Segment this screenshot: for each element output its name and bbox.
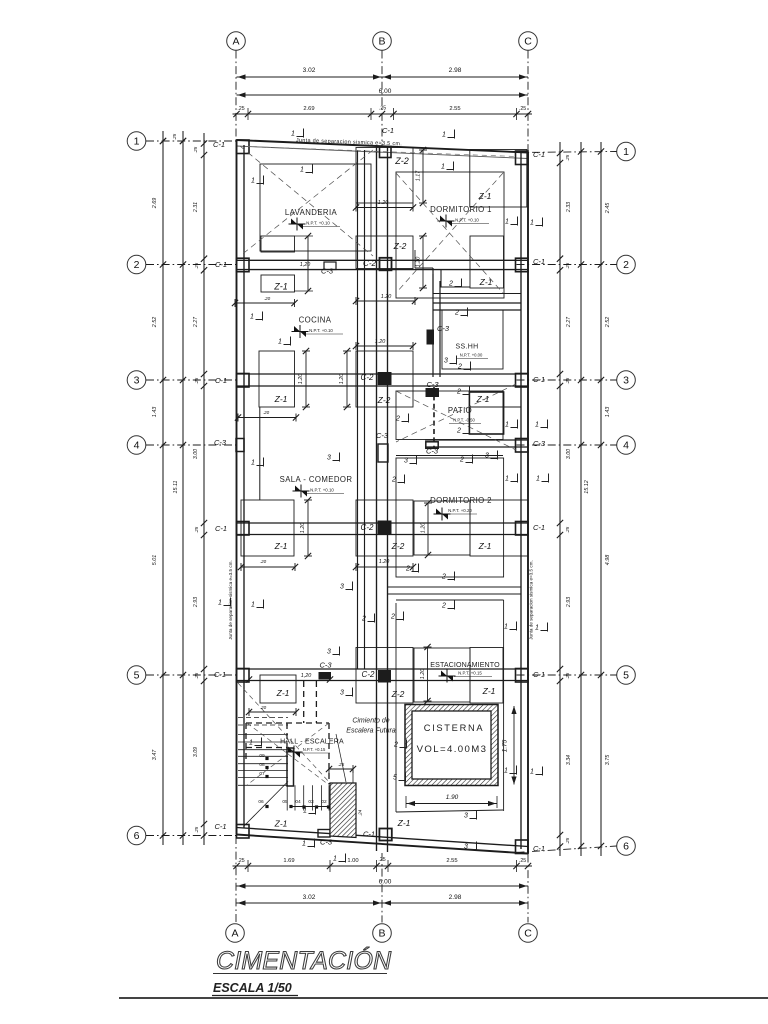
svg-text:3.02: 3.02 xyxy=(303,67,316,74)
svg-text:1: 1 xyxy=(278,339,282,346)
svg-text:N.P.T. +0.10: N.P.T. +0.10 xyxy=(310,488,334,493)
svg-text:3: 3 xyxy=(340,690,344,697)
svg-text:C-1: C-1 xyxy=(533,670,545,679)
svg-text:Z-1: Z-1 xyxy=(274,394,288,404)
zapata Z-1 left row45 xyxy=(241,500,294,556)
svg-text:04: 04 xyxy=(295,799,301,805)
grid circle A bottom xyxy=(226,924,245,943)
column C-2 B r5 filled xyxy=(379,671,391,683)
svg-text:DORMITORIO 2: DORMITORIO 2 xyxy=(430,496,492,505)
zapata Z-1 left row5 xyxy=(260,675,296,703)
stair riser line 2 xyxy=(294,785,296,810)
left chain middle ticks xyxy=(180,261,186,267)
column C-1 B r1 xyxy=(380,147,392,158)
svg-text:.25: .25 xyxy=(194,262,199,269)
svg-text:2.31: 2.31 xyxy=(193,202,199,213)
svg-text:3: 3 xyxy=(134,375,140,387)
column C-3 patio bottom xyxy=(426,442,438,449)
svg-text:Z-1: Z-1 xyxy=(274,541,288,551)
left wall inner line xyxy=(243,145,245,828)
bottom boundary line upper xyxy=(237,828,529,847)
svg-text:N.P.T. +0.10: N.P.T. +0.10 xyxy=(309,328,333,333)
lavanderia diagonal 1 xyxy=(240,146,373,256)
top junta diagonal hint xyxy=(248,147,516,157)
svg-text:1: 1 xyxy=(249,740,253,747)
svg-text:2: 2 xyxy=(361,616,366,623)
svg-text:2.98: 2.98 xyxy=(449,894,462,901)
column C-3 B r4 xyxy=(378,444,388,462)
svg-text:1: 1 xyxy=(505,476,509,483)
svg-text:DORMITORIO 1: DORMITORIO 1 xyxy=(430,205,492,214)
right chain middle ticks xyxy=(578,261,584,267)
stair tread line 3 xyxy=(238,749,288,751)
row 4.5 wall lower line xyxy=(237,534,529,536)
secondary wall left of B inner xyxy=(364,150,366,669)
grid circle 1 right xyxy=(617,142,636,161)
svg-text:C-2: C-2 xyxy=(363,259,376,268)
svg-text:1.20: 1.20 xyxy=(420,669,426,680)
svg-text:C-1: C-1 xyxy=(533,257,545,266)
svg-text:Cimiento de: Cimiento de xyxy=(352,718,389,725)
svg-text:Z-2: Z-2 xyxy=(393,241,407,251)
svg-text:.25: .25 xyxy=(172,133,177,140)
wall step right of B row2 xyxy=(414,250,416,268)
dormitorio2 closet rect xyxy=(414,501,470,555)
svg-text:1.00: 1.00 xyxy=(347,858,358,864)
dim h 1.20 B row45 xyxy=(356,566,413,568)
cisterna dim 1.75 xyxy=(513,706,515,785)
column C-1 r1 left wall xyxy=(237,140,250,154)
garage left wall line xyxy=(395,603,397,812)
svg-text:2.98: 2.98 xyxy=(449,67,462,74)
svg-text:Z-1: Z-1 xyxy=(397,818,411,828)
grid circle 6 right xyxy=(617,837,636,856)
zapata Z-2 B row2 xyxy=(356,236,413,269)
dim h 1.20 B row3 xyxy=(356,345,413,347)
svg-text:6.00: 6.00 xyxy=(379,879,392,886)
secondary wall left of B outer xyxy=(357,150,359,669)
svg-text:C-1: C-1 xyxy=(363,830,375,839)
svg-text:.25: .25 xyxy=(565,837,570,844)
svg-text:.25: .25 xyxy=(194,377,199,384)
svg-text:3.00: 3.00 xyxy=(566,449,572,459)
left chain middle ticks xyxy=(180,442,186,448)
stair dot xyxy=(302,805,305,808)
svg-text:Z-2: Z-2 xyxy=(377,395,391,405)
bottom boundary line outer xyxy=(237,835,529,854)
stair riser line 3 xyxy=(303,785,305,810)
svg-text:.24: .24 xyxy=(358,809,363,816)
svg-text:SALA - COMEDOR: SALA - COMEDOR xyxy=(280,475,353,484)
svg-text:5: 5 xyxy=(623,670,629,682)
svg-text:3.09: 3.09 xyxy=(193,747,199,757)
svg-text:Z-1: Z-1 xyxy=(273,282,288,292)
right wall outer line xyxy=(527,153,529,854)
room lavanderia outline xyxy=(260,164,371,251)
svg-text:3.75: 3.75 xyxy=(605,754,611,765)
stair tread line 5 xyxy=(238,763,288,765)
axis 1 leader left dash-dot xyxy=(146,140,237,142)
dim v 1.20 lavanderia row2 xyxy=(307,236,309,291)
svg-text:N.P.T. +0.15: N.P.T. +0.15 xyxy=(303,747,326,752)
left chain middle ticks xyxy=(180,377,186,383)
svg-text:4: 4 xyxy=(623,440,629,452)
dim v 1.20 left row3 b xyxy=(346,351,348,407)
svg-text:2: 2 xyxy=(623,259,629,271)
zapata Z-1 right row45 xyxy=(470,500,528,556)
stair dot xyxy=(315,805,318,808)
garage top wall upper xyxy=(388,586,521,588)
axis 1 leader right dash-dot xyxy=(517,152,617,153)
svg-text:3: 3 xyxy=(623,375,629,387)
stair dot xyxy=(289,805,292,808)
svg-text:C-1: C-1 xyxy=(213,140,225,149)
svg-text:3: 3 xyxy=(404,458,408,465)
svg-text:2.69: 2.69 xyxy=(152,198,158,210)
zapata Z-2 B row3 xyxy=(356,351,413,407)
svg-text:2.52: 2.52 xyxy=(605,317,611,329)
bottom dimension chain .25 1.69 1.00 .25 2.55 .25 xyxy=(233,865,533,867)
column C-1 stair r6 xyxy=(318,830,330,838)
svg-text:C-3: C-3 xyxy=(426,447,439,456)
zapata Z-1 left row3 xyxy=(259,351,295,407)
stair dashed mid horizontal xyxy=(246,747,287,749)
svg-text:LAVANDERIA: LAVANDERIA xyxy=(285,208,338,217)
svg-text:C-1: C-1 xyxy=(533,523,545,532)
svg-text:3: 3 xyxy=(464,844,468,851)
dim h 1.20 under Z2 top xyxy=(356,207,413,209)
right chain ticks at row xyxy=(598,442,604,448)
svg-text:6.00: 6.00 xyxy=(379,88,392,95)
svg-text:1.43: 1.43 xyxy=(605,407,611,418)
column C-2 B r45 filled xyxy=(378,521,391,534)
svg-text:.25: .25 xyxy=(193,146,198,153)
left chain line inner xyxy=(203,133,205,845)
svg-text:2: 2 xyxy=(454,310,459,317)
svg-text:1.20: 1.20 xyxy=(375,339,386,345)
svg-text:1.20: 1.20 xyxy=(378,200,389,206)
svg-text:A: A xyxy=(231,928,238,940)
dim h .20 left row5 xyxy=(249,711,296,713)
grid circle 6 left xyxy=(127,826,146,845)
svg-text:2: 2 xyxy=(456,389,461,396)
right chain ticks at row xyxy=(598,377,604,383)
stair dot xyxy=(265,757,268,760)
row 4 wall lower line xyxy=(425,446,528,448)
svg-text:1: 1 xyxy=(505,422,509,429)
svg-text:Escalera Futura: Escalera Futura xyxy=(346,728,396,735)
column C-1 r6 left wall xyxy=(237,825,250,839)
svg-text:5: 5 xyxy=(134,670,140,682)
svg-text:1: 1 xyxy=(504,768,508,775)
axis 5 leader left dash-dot xyxy=(146,674,237,676)
estacionamiento closet rect xyxy=(414,648,470,702)
svg-text:5.01: 5.01 xyxy=(152,555,158,566)
column C-1 r1 right wall xyxy=(516,151,529,165)
zapata Z-2 B row5 xyxy=(356,648,413,704)
column C-3 ssh filled xyxy=(427,330,434,344)
stair dot xyxy=(327,805,330,808)
svg-text:Z-2: Z-2 xyxy=(391,541,405,551)
row 2 wall upper line xyxy=(237,259,529,261)
svg-text:1.20: 1.20 xyxy=(339,374,345,385)
svg-text:Z-1: Z-1 xyxy=(479,277,493,287)
grid circle B bottom xyxy=(373,924,392,943)
zapata Z-1 right patio xyxy=(469,392,503,434)
bottom dimension line 6.00 xyxy=(237,885,529,887)
dim v 1.20 left row45 xyxy=(307,500,309,556)
garage right wall line xyxy=(503,600,505,811)
svg-text:2.93: 2.93 xyxy=(193,597,199,608)
room sshh outline xyxy=(442,310,503,369)
row 3 wall upper line xyxy=(237,373,529,375)
left chain ticks at row xyxy=(160,377,166,383)
svg-text:2: 2 xyxy=(395,416,400,423)
top dimension line 3.02 / 2.98 xyxy=(237,76,529,78)
grid circle A top xyxy=(227,32,246,51)
right wall inner line xyxy=(520,153,522,849)
svg-text:C: C xyxy=(524,928,532,940)
left inner chain wall ticks xyxy=(201,140,207,146)
svg-text:5: 5 xyxy=(393,775,397,782)
stair arrow xyxy=(291,806,338,808)
dim h .20 left row2 xyxy=(235,302,295,304)
left chain middle ticks xyxy=(180,832,186,838)
svg-text:C-1: C-1 xyxy=(533,375,545,384)
svg-text:C-1: C-1 xyxy=(533,844,545,853)
dim h 1.20 B row2b xyxy=(356,300,415,302)
column C-1 r3 left wall xyxy=(237,374,250,388)
stair riser line 4 xyxy=(312,785,314,810)
svg-text:1.90: 1.90 xyxy=(446,794,459,801)
svg-text:.25: .25 xyxy=(338,762,345,767)
left strip footing line xyxy=(259,407,261,500)
right chain line outer xyxy=(600,142,602,856)
zapata Z-1 right row5 xyxy=(470,648,503,704)
svg-text:2: 2 xyxy=(134,259,140,271)
svg-text:3: 3 xyxy=(340,584,344,591)
stair tread line 7 xyxy=(238,777,288,779)
svg-text:2.52: 2.52 xyxy=(152,317,158,329)
dim v 1.20 left row3 a xyxy=(305,351,307,407)
svg-text:C-1: C-1 xyxy=(533,150,545,159)
room dormitorio1 outline xyxy=(396,172,504,298)
svg-text:.20: .20 xyxy=(260,559,267,564)
svg-text:COCINA: COCINA xyxy=(299,316,332,325)
stair dot xyxy=(265,775,268,778)
stair dim .25 xyxy=(329,768,353,770)
garage bottom line xyxy=(396,810,503,812)
axis 3 leader right dash-dot xyxy=(517,379,617,381)
svg-text:C-1: C-1 xyxy=(215,524,227,533)
stair dashed box left xyxy=(245,723,247,762)
cisterna dim 1.90 xyxy=(406,803,497,805)
svg-text:1: 1 xyxy=(251,602,255,609)
svg-text:VOL=4.00M3: VOL=4.00M3 xyxy=(417,744,488,755)
svg-text:3: 3 xyxy=(327,649,331,656)
dormitorio1 diagonal 1 xyxy=(396,173,503,293)
right chain middle ticks xyxy=(578,148,584,154)
svg-text:N.P.T. +0.10: N.P.T. +0.10 xyxy=(306,221,330,226)
axis C top dash-dot xyxy=(527,51,529,153)
patio axis dashed C-3 xyxy=(433,387,435,449)
svg-text:1.75: 1.75 xyxy=(502,739,509,752)
lavanderia closet rect xyxy=(261,236,295,252)
svg-text:Z-1: Z-1 xyxy=(478,541,492,551)
svg-text:2: 2 xyxy=(456,428,461,435)
svg-text:1: 1 xyxy=(442,132,446,139)
svg-text:1: 1 xyxy=(251,178,255,185)
svg-text:A: A xyxy=(232,36,239,48)
svg-text:.25: .25 xyxy=(237,106,244,112)
stair dashed vertical c xyxy=(286,723,288,748)
right inner chain wall ticks xyxy=(557,150,563,156)
svg-text:C-3: C-3 xyxy=(376,431,389,440)
svg-text:N.P.T. +0.20: N.P.T. +0.20 xyxy=(448,508,472,513)
right chain ticks at row xyxy=(598,148,604,154)
svg-text:Z-2: Z-2 xyxy=(394,156,409,166)
svg-text:1: 1 xyxy=(218,600,222,607)
svg-text:1: 1 xyxy=(441,164,445,171)
stair riser line 6 xyxy=(328,785,330,810)
column C-1 r3 right wall xyxy=(516,374,529,388)
row 4.5 wall upper line xyxy=(237,522,529,524)
svg-text:3.02: 3.02 xyxy=(303,894,316,901)
top boundary junta line inner xyxy=(237,146,529,159)
svg-text:N.P.T. +0.10: N.P.T. +0.10 xyxy=(455,218,479,223)
right chain middle ticks xyxy=(578,672,584,678)
stair tread line 2 xyxy=(238,741,288,743)
row 5 wall upper line xyxy=(237,668,529,670)
column C-2 B r3 filled xyxy=(378,373,391,385)
room sshh left wall xyxy=(432,268,434,377)
svg-text:C-2: C-2 xyxy=(361,523,374,532)
axis B top dash-dot xyxy=(381,51,383,148)
row 5 wall lower line xyxy=(237,680,529,682)
column C-1 r2 right wall xyxy=(516,258,529,272)
hall diagonal cross xyxy=(247,723,329,785)
room sshh top wall xyxy=(433,302,521,304)
svg-text:3.34: 3.34 xyxy=(566,755,572,765)
left chain line middle xyxy=(182,131,184,845)
svg-text:2.27: 2.27 xyxy=(566,316,572,328)
svg-text:1: 1 xyxy=(251,460,255,467)
grid circle 3 right xyxy=(617,371,636,390)
svg-text:.25: .25 xyxy=(194,672,199,679)
stair tread dashed a xyxy=(238,717,288,719)
stair tread dashed b xyxy=(238,724,288,726)
left chain ticks at row xyxy=(160,138,166,144)
zapata Z-2 B row45 xyxy=(356,500,413,556)
svg-text:C-2: C-2 xyxy=(361,373,374,382)
svg-text:.25: .25 xyxy=(519,106,526,112)
axis 3 leader left dash-dot xyxy=(146,379,237,381)
row 4 lower band upper xyxy=(396,455,503,457)
top boundary junta line outer xyxy=(237,140,529,153)
svg-text:ESCALA 1/50: ESCALA 1/50 xyxy=(213,981,292,995)
grid circle 5 left xyxy=(127,666,146,685)
axis A top dash-dot xyxy=(235,51,237,141)
svg-text:C-3: C-3 xyxy=(426,380,439,389)
svg-text:C-3: C-3 xyxy=(533,439,546,448)
svg-text:1: 1 xyxy=(535,625,539,632)
right chain ticks at row xyxy=(598,843,604,849)
svg-text:Z-2: Z-2 xyxy=(391,689,405,699)
column C-2 B r2 xyxy=(380,258,392,271)
svg-text:.25: .25 xyxy=(565,154,570,161)
left chain ticks at row xyxy=(160,261,166,267)
stair riser line 1 xyxy=(286,785,288,810)
svg-text:.25: .25 xyxy=(379,106,386,112)
svg-text:1: 1 xyxy=(302,841,306,848)
grid circle 4 left xyxy=(127,436,146,455)
svg-text:2: 2 xyxy=(459,457,464,464)
left chain ticks at row xyxy=(160,832,166,838)
svg-text:3.00: 3.00 xyxy=(193,449,199,459)
svg-text:1.69: 1.69 xyxy=(283,858,294,864)
room dormitorio2 outline xyxy=(396,458,504,577)
grid circle B top xyxy=(373,32,392,51)
svg-text:1.20: 1.20 xyxy=(381,294,392,300)
left chain middle ticks xyxy=(180,138,186,144)
svg-text:.25: .25 xyxy=(565,672,570,679)
svg-text:Z-1: Z-1 xyxy=(274,819,288,829)
svg-text:C-3: C-3 xyxy=(321,267,334,276)
patio diagonal 1 xyxy=(396,391,516,450)
svg-text:CIMENTACIÓN: CIMENTACIÓN xyxy=(216,946,392,975)
svg-text:.25: .25 xyxy=(194,826,199,833)
svg-text:C-1: C-1 xyxy=(382,126,394,135)
right chain ticks at row xyxy=(598,672,604,678)
svg-text:6: 6 xyxy=(134,830,140,842)
svg-text:2: 2 xyxy=(390,614,395,621)
stair dashed box right xyxy=(328,723,330,784)
svg-text:2: 2 xyxy=(391,477,396,484)
svg-text:2: 2 xyxy=(441,603,446,610)
row 4 wall upper line xyxy=(425,439,528,441)
svg-text:C-1: C-1 xyxy=(214,822,226,831)
grid circle 2 right xyxy=(617,255,636,274)
svg-text:3: 3 xyxy=(464,813,468,820)
axis 5 leader right dash-dot xyxy=(517,674,617,676)
room patio outline xyxy=(396,391,503,440)
svg-text:2: 2 xyxy=(405,566,410,573)
dim 1.20 B row2 xyxy=(422,236,424,288)
svg-text:2.27: 2.27 xyxy=(193,316,199,328)
left wall outer line xyxy=(236,140,238,835)
left chain middle ticks xyxy=(180,672,186,678)
stair dashed vertical b xyxy=(315,681,317,723)
svg-text:C-3: C-3 xyxy=(319,661,332,670)
svg-text:3: 3 xyxy=(444,358,448,365)
column C-3 r4 left wall xyxy=(236,439,244,452)
left chain ticks at row xyxy=(160,672,166,678)
svg-text:1,20: 1,20 xyxy=(300,262,311,268)
column C-1 r45 left wall xyxy=(237,522,250,536)
svg-text:2.69: 2.69 xyxy=(303,106,314,112)
column C-3 patio top filled xyxy=(426,389,439,397)
svg-text:1: 1 xyxy=(291,131,295,138)
column C-3 stair r5 filled xyxy=(319,673,331,680)
right chain middle ticks xyxy=(578,843,584,849)
svg-text:C-3: C-3 xyxy=(320,838,333,847)
column C-1 r2 left wall xyxy=(237,258,250,272)
column C-3 row2 mid xyxy=(324,262,336,270)
left chain line outer xyxy=(162,131,164,845)
svg-text:B: B xyxy=(378,928,385,940)
svg-text:2.55: 2.55 xyxy=(449,106,460,112)
dim v 1.20 B row5 xyxy=(427,647,429,701)
